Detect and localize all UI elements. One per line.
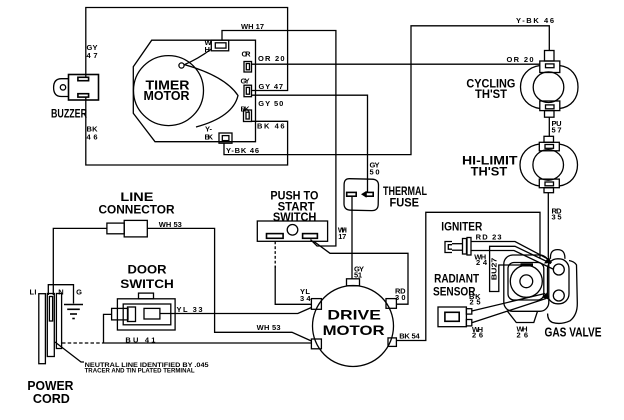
svg-text:24: 24 — [476, 258, 488, 267]
timer assembly outline — [133, 40, 255, 142]
neutral note text — [85, 363, 210, 375]
svg-text:BU 41: BU 41 — [125, 336, 155, 345]
svg-text:50: 50 — [370, 167, 380, 176]
thermal fuse right terminal with arrow — [361, 191, 373, 198]
gas valve bottom flap — [508, 311, 538, 322]
label WH 17 (at switch) — [338, 226, 347, 242]
timer cam pivot — [179, 63, 184, 68]
label GY 51 — [354, 264, 364, 279]
svg-text:Y-BK 46: Y-BK 46 — [226, 146, 259, 155]
svg-text:WH 53: WH 53 — [159, 220, 182, 229]
svg-text:57: 57 — [552, 125, 562, 134]
wire L1 (power cord to line connector) — [53, 228, 107, 295]
wire WH 53 (line connector to drive motor) — [147, 228, 311, 341]
label RADIANT SENSOR — [433, 272, 480, 299]
wire RD 30 (push-to-start to drive motor) — [314, 242, 408, 305]
drive motor — [311, 279, 396, 367]
timer cam crescent — [184, 65, 238, 128]
timer cam link to W-H — [184, 49, 211, 65]
label Y- BK — [205, 125, 214, 142]
label DRIVE MOTOR — [323, 307, 385, 338]
svg-text:BK: BK — [241, 105, 251, 114]
svg-text:LI: LI — [30, 288, 37, 297]
svg-text:BUZZER: BUZZER — [51, 109, 88, 121]
label WH 24 — [474, 252, 488, 267]
svg-text:DOOR: DOOR — [128, 263, 167, 277]
svg-text:SWITCH: SWITCH — [273, 210, 317, 224]
svg-text:WH 17: WH 17 — [241, 22, 264, 31]
thermal fuse left terminal — [347, 192, 357, 196]
wire Y-BK 46 (timer to cycling thermostat) — [224, 26, 549, 155]
label WH 26 (valve) — [517, 324, 529, 339]
power cord blades — [39, 294, 62, 364]
svg-text:OR 20: OR 20 — [507, 55, 534, 64]
svg-text:TRACER AND TIN PLATED TERMINAL: TRACER AND TIN PLATED TERMINAL — [85, 368, 195, 374]
gas valve coil core — [520, 275, 533, 288]
svg-text:WH 53: WH 53 — [257, 323, 281, 332]
wire YL 34 (push-to-start to drive motor) — [274, 242, 276, 269]
wire OR 20 (timer to cycling thermostat) — [252, 63, 540, 65]
label DOOR SWITCH — [120, 263, 174, 292]
gas valve flange — [548, 259, 570, 304]
wire GY 51 (thermal fuse to drive motor) — [351, 196, 353, 279]
label GY 50 (fuse) — [370, 161, 380, 177]
label HI-LIMIT TH'ST — [462, 154, 518, 179]
svg-text:34: 34 — [300, 294, 311, 303]
neutral note leader — [55, 342, 84, 362]
svg-text:GAS VALVE: GAS VALVE — [545, 324, 602, 339]
wire RD 35 (hi-limit to gas valve) — [547, 193, 549, 257]
terminal GY — [244, 85, 252, 97]
label BK 46 at buzzer — [87, 125, 99, 142]
buzzer — [54, 75, 99, 101]
svg-text:CORD: CORD — [33, 391, 70, 406]
svg-text:H: H — [205, 45, 210, 54]
label POWER CORD — [27, 378, 74, 406]
svg-text:GY: GY — [241, 76, 250, 85]
wire BU 41 (power cord to door switch to drive motor) — [62, 314, 311, 343]
wire WH 24 (igniter to gas valve) — [471, 251, 554, 270]
svg-text:N: N — [58, 288, 63, 297]
line connector — [107, 220, 147, 237]
cycling thermostat — [521, 51, 579, 118]
svg-text:35: 35 — [552, 213, 562, 222]
timer motor circle — [134, 56, 204, 126]
svg-text:CONNECTOR: CONNECTOR — [99, 202, 175, 216]
ground symbol — [48, 285, 83, 319]
wire BU 27 (gas valve coil loop) — [490, 246, 551, 291]
gas valve mounting hole top — [553, 264, 564, 275]
terminal OR — [244, 62, 252, 73]
label TIMER MOTOR — [144, 79, 190, 103]
radiant sensor — [438, 307, 472, 327]
wire BK 54 (drive motor to gas valve, around igniter box) — [396, 212, 540, 340]
arrowheads at valve terminals — [542, 257, 552, 300]
gas valve silhouette — [550, 250, 564, 259]
label THERMAL FUSE — [383, 184, 427, 210]
label RD 30 — [395, 287, 406, 303]
power cord labels LI N G — [30, 288, 83, 297]
svg-text:17: 17 — [338, 232, 346, 241]
terminal Y-BK — [219, 133, 232, 143]
gas valve coil contact bar — [521, 263, 534, 266]
gas valve mounting hole bottom — [553, 290, 564, 301]
label W H — [205, 38, 213, 54]
wire WH 17 (timer to push-to-start switch) — [222, 31, 336, 247]
wire BK 25 (radiant sensor to gas valve) — [472, 294, 545, 312]
svg-text:BK 46: BK 46 — [257, 121, 285, 130]
terminal W-H — [211, 40, 228, 51]
svg-text:YL 33: YL 33 — [177, 305, 203, 314]
label GY 47 at buzzer — [87, 43, 98, 60]
wire RD 23 (igniter to gas valve) — [471, 242, 548, 260]
push-to-start switch — [257, 221, 327, 241]
label CYCLING TH'ST — [466, 77, 515, 102]
door switch — [112, 293, 176, 330]
thermal fuse body — [344, 179, 379, 211]
svg-text:BK: BK — [205, 132, 214, 141]
wire PU 57 (cycling to hi-limit) — [548, 117, 550, 136]
wire GY 50 (timer to thermal fuse) — [252, 95, 368, 192]
svg-text:GY 50: GY 50 — [258, 99, 283, 108]
label WH 26 (sensor) — [472, 325, 483, 340]
svg-text:RD 23: RD 23 — [476, 233, 502, 242]
svg-text:G: G — [76, 288, 82, 297]
terminal BK — [244, 110, 252, 122]
svg-text:TH'ST: TH'ST — [471, 165, 508, 179]
gas valve coil — [510, 265, 542, 297]
wire BK 46 (buzzer to timer, around box bottom-right) — [86, 97, 288, 165]
label RD 35 — [552, 206, 563, 221]
wire WH 26 (radiant sensor to gas valve) — [472, 299, 546, 323]
hi-limit thermostat — [520, 136, 578, 192]
label BK 25 — [469, 292, 481, 307]
svg-text:BK 54: BK 54 — [399, 332, 420, 341]
igniter — [445, 238, 471, 256]
gas valve body — [504, 255, 549, 311]
label YL 34 — [300, 287, 311, 303]
wire YL 33 (door switch to drive motor) — [160, 308, 312, 314]
label PUSH TO START SWITCH — [270, 189, 318, 224]
label LINE CONNECTOR — [99, 190, 175, 217]
svg-text:DRIVE: DRIVE — [327, 307, 381, 323]
svg-text:BU27: BU27 — [492, 258, 499, 281]
svg-text:MOTOR: MOTOR — [144, 89, 190, 103]
wire GY 47 (timer to buzzer, around box top-left) — [86, 8, 288, 91]
svg-text:TH'ST: TH'ST — [475, 87, 508, 101]
label PU 57 — [552, 119, 562, 134]
svg-text:SWITCH: SWITCH — [120, 277, 174, 291]
svg-text:MOTOR: MOTOR — [323, 322, 385, 338]
gas valve coil housing — [508, 263, 544, 301]
svg-text:GY 47: GY 47 — [259, 82, 284, 91]
svg-text:FUSE: FUSE — [390, 195, 420, 209]
svg-text:OR 20: OR 20 — [258, 54, 285, 63]
svg-text:OR: OR — [242, 50, 252, 59]
svg-text:IGNITER: IGNITER — [441, 220, 482, 234]
